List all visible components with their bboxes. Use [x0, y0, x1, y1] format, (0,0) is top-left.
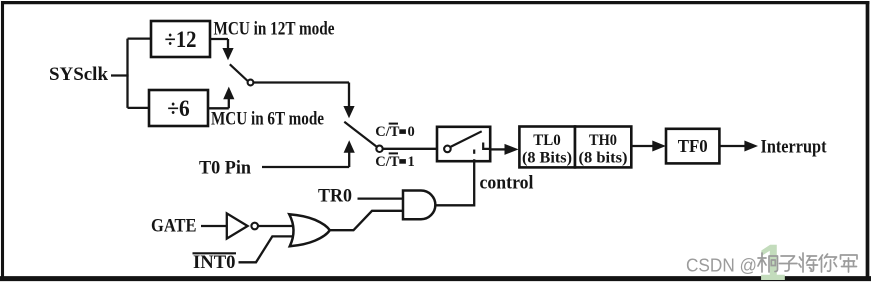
wire NOT to OR — [258, 225, 294, 227]
node INT0 label with overline — [193, 252, 237, 273]
wire control line — [435, 159, 474, 205]
svg-text:÷12: ÷12 — [165, 27, 197, 52]
svg-text:T0 Pin: T0 Pin — [199, 158, 251, 179]
svg-text:TL0: TL0 — [533, 132, 561, 149]
svg-text:SYSclk: SYSclk — [49, 64, 108, 85]
or-gate U5 — [289, 214, 330, 246]
switch SW3 pole circle — [444, 146, 451, 153]
svg-text:control: control — [480, 174, 534, 194]
wire div12 output with down arrow — [210, 39, 234, 60]
switch SW2 pole circle — [376, 146, 382, 152]
switch SW1 pole circle — [248, 80, 254, 86]
switch SW2 lever — [344, 122, 377, 147]
svg-text:1: 1 — [408, 154, 415, 170]
wire branch to div6 — [128, 107, 150, 109]
wire SW1 to SW2 with down arrow — [253, 83, 354, 119]
wire SW2 to count switch box — [383, 148, 437, 150]
control dashed tick — [473, 150, 475, 154]
watermark fake CJK glyphs — [758, 253, 857, 272]
register TH0 box — [575, 127, 631, 168]
inverter U4 bubble — [251, 223, 258, 230]
flag TF0 box — [666, 129, 719, 164]
wire SYSclk lead — [111, 74, 129, 76]
svg-text:MCU in 12T mode: MCU in 12T mode — [214, 19, 335, 40]
wire OR to AND — [330, 211, 403, 230]
switch SW3 contact — [483, 143, 490, 149]
svg-text:÷6: ÷6 — [167, 96, 190, 121]
wire AND output — [435, 204, 474, 206]
label C/T=1 — [375, 153, 414, 170]
svg-text:(8 Bits): (8 Bits) — [522, 150, 572, 167]
divider U2 ÷6 box — [149, 90, 208, 126]
svg-text:CSDN @: CSDN @ — [686, 256, 757, 276]
svg-text:TF0: TF0 — [678, 136, 708, 156]
arrow switch box to TL0 — [490, 144, 518, 155]
wire T0 Pin with up arrow — [262, 140, 355, 167]
svg-text:TR0: TR0 — [318, 186, 352, 207]
and-gate U3 — [403, 191, 435, 220]
label C/T=0 — [375, 124, 414, 141]
switch SW3 lever — [451, 131, 482, 147]
count-enable switch box — [437, 127, 490, 161]
svg-text:INT0: INT0 — [193, 252, 236, 273]
register TL0 box — [519, 127, 575, 168]
svg-text:0: 0 — [408, 124, 415, 140]
svg-text:C/T: C/T — [375, 124, 400, 140]
svg-text:TH0: TH0 — [589, 132, 617, 149]
inverter U4 triangle — [227, 213, 248, 238]
wire branch vertical — [126, 39, 128, 108]
arrow TH0 to TF0 — [631, 141, 666, 152]
svg-text:(8 bits): (8 bits) — [579, 150, 628, 167]
svg-text:GATE: GATE — [151, 216, 197, 237]
svg-text:MCU in 6T mode: MCU in 6T mode — [211, 109, 324, 130]
wire GATE to NOT — [201, 225, 227, 227]
divider U1 ÷12 box — [151, 21, 210, 57]
svg-text:C/T: C/T — [375, 154, 400, 170]
svg-text:Interrupt: Interrupt — [761, 138, 828, 158]
wire INT0 to OR — [239, 236, 296, 262]
wire div6 output with up arrow — [208, 87, 234, 109]
switch SW1 lever — [230, 64, 248, 81]
wire TR0 to AND — [358, 197, 404, 199]
wire branch to div12 — [128, 37, 152, 39]
arrow TF0 to Interrupt — [719, 141, 758, 152]
